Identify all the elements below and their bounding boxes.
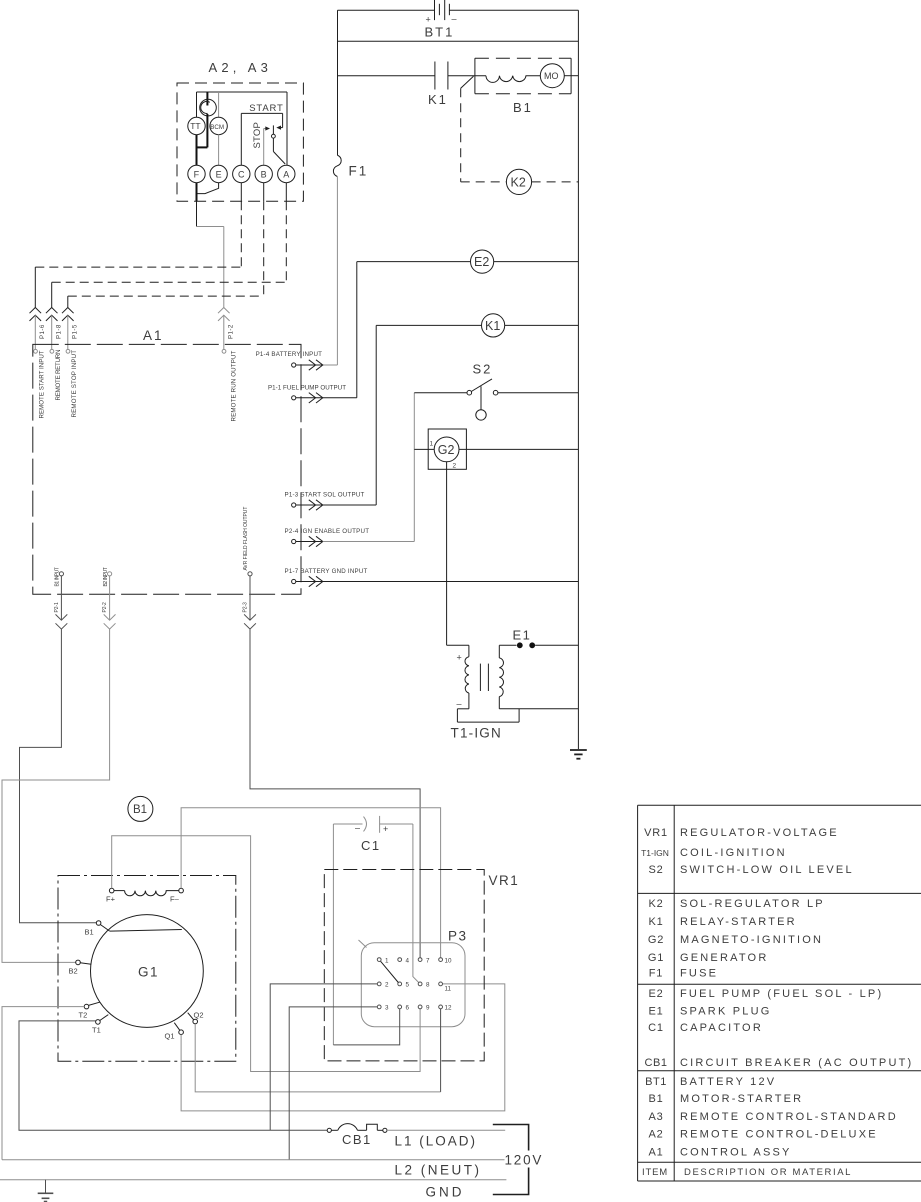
120V bracket: [493, 1125, 543, 1195]
svg-text:CB1: CB1: [645, 1057, 668, 1069]
wire: GND line: [0, 1179, 506, 1181]
connector P1-5: [62, 308, 79, 418]
connector P1-2: [218, 308, 238, 422]
svg-text:B1: B1: [648, 1093, 663, 1105]
svg-text:P1-2: P1-2: [228, 324, 235, 339]
svg-text:MO: MO: [544, 71, 559, 81]
voltage regulator VR1 box: [324, 870, 519, 1061]
pushbutton STOP contact: [252, 122, 270, 165]
wire: P2-1 route to B1 terminal: [20, 629, 97, 923]
wire: S2 to right rail: [498, 392, 579, 394]
svg-text:K1: K1: [428, 92, 448, 107]
table row S2: [648, 864, 853, 876]
svg-text:GND: GND: [426, 1185, 465, 1200]
svg-text:G1: G1: [648, 952, 664, 964]
svg-text:A3: A3: [648, 1111, 663, 1123]
switch arm to A: [272, 125, 286, 164]
svg-text:AVR FIELD FLASH OUTPUT: AVR FIELD FLASH OUTPUT: [243, 507, 249, 571]
table row K2: [648, 898, 824, 910]
pin P1-1 fuel pump output: [268, 384, 357, 403]
svg-text:G1: G1: [138, 965, 159, 980]
balloon label B1: [128, 796, 153, 821]
svg-text:G2: G2: [648, 934, 664, 946]
svg-text:REMOTE RUN OUTPUT: REMOTE RUN OUTPUT: [231, 350, 238, 421]
svg-text:SOL-REGULATOR LP: SOL-REGULATOR LP: [680, 898, 825, 910]
svg-text:2: 2: [385, 982, 389, 989]
svg-text:BATTERY 12V: BATTERY 12V: [680, 1076, 776, 1088]
svg-text:G2: G2: [438, 443, 455, 457]
svg-text:BCM: BCM: [210, 124, 224, 131]
svg-text:6: 6: [406, 1005, 410, 1012]
wire: BCM to E: [218, 135, 220, 166]
svg-text:CAPACITOR: CAPACITOR: [680, 1022, 763, 1034]
wire: T2 route to L2: [2, 1007, 84, 1160]
wire: A dashed route to P1-8: [52, 183, 287, 308]
svg-text:E2: E2: [648, 988, 663, 1000]
svg-text:A: A: [283, 170, 289, 180]
svg-text:F: F: [194, 170, 200, 180]
svg-text:2: 2: [453, 463, 457, 470]
transformer T1-IGN: [451, 645, 520, 740]
svg-text:B1 INPUT: B1 INPUT: [55, 567, 61, 586]
wire: T1 route to L1: [19, 1021, 327, 1130]
terminal TT: [188, 117, 205, 134]
svg-text:REGULATOR-VOLTAGE: REGULATOR-VOLTAGE: [680, 827, 839, 839]
table row A2: [648, 1129, 877, 1141]
svg-text:F1: F1: [349, 164, 369, 179]
wire: P2-3 route to P3 pin7: [250, 629, 420, 958]
svg-text:4: 4: [406, 957, 410, 964]
wire: top battery rail: [338, 9, 579, 11]
svg-text:ITEM: ITEM: [642, 1167, 668, 1178]
svg-text:L1 (LOAD): L1 (LOAD): [395, 1134, 478, 1149]
remote control A2 A3 outer box: [177, 60, 303, 201]
indicator lamp: [197, 92, 217, 147]
pin P1-4 battery input: [256, 351, 323, 370]
svg-text:K1: K1: [648, 916, 663, 928]
svg-text:S2: S2: [648, 864, 663, 876]
pin P2-2 B2 input: [102, 567, 115, 629]
svg-text:B2: B2: [69, 967, 78, 976]
svg-text:A1: A1: [648, 1147, 663, 1159]
terminal BCM: [210, 92, 227, 135]
svg-text:REMOTE CONTROL-DELUXE: REMOTE CONTROL-DELUXE: [680, 1129, 878, 1141]
wire: E2 to right rail: [494, 261, 579, 263]
svg-text:CB1: CB1: [342, 1132, 372, 1147]
svg-text:F–: F–: [170, 895, 180, 904]
connector P1-6: [30, 308, 47, 419]
svg-text:RELAY-STARTER: RELAY-STARTER: [680, 916, 797, 928]
terminal E: [210, 165, 227, 182]
wire: Q1 route to P3 pin11: [181, 984, 505, 1111]
svg-text:P3: P3: [448, 929, 468, 944]
table footer: [642, 1167, 852, 1178]
fuse F1: [333, 155, 368, 178]
svg-text:TT: TT: [190, 121, 200, 131]
terminal T1: [92, 1015, 108, 1035]
table row BT1: [645, 1076, 776, 1088]
svg-text:C: C: [238, 170, 245, 180]
svg-text:9: 9: [426, 1005, 430, 1012]
wire: pin12 drop: [440, 1009, 442, 1092]
svg-text:P1-1 FUEL PUMP OUTPUT: P1-1 FUEL PUMP OUTPUT: [268, 384, 346, 391]
svg-text:P2-2: P2-2: [102, 602, 108, 612]
svg-text:STOP: STOP: [252, 122, 263, 149]
svg-text:CIRCUIT BREAKER (AC OUTPUT): CIRCUIT BREAKER (AC OUTPUT): [680, 1057, 913, 1069]
svg-text:FUSE: FUSE: [680, 968, 718, 980]
table row K1: [648, 916, 796, 928]
terminal T2: [79, 1002, 100, 1019]
switch S2 low oil level: [467, 362, 498, 421]
svg-text:10: 10: [445, 957, 453, 964]
svg-text:P2-3: P2-3: [243, 602, 249, 612]
svg-text:B1: B1: [85, 928, 94, 937]
wire: fuse output down to P1-4: [323, 177, 338, 366]
svg-text:F+: F+: [106, 895, 116, 904]
table row G1: [648, 952, 769, 964]
P3 pins row 1: [377, 957, 452, 964]
table row C1: [648, 1022, 763, 1034]
svg-text:T1: T1: [92, 1026, 101, 1035]
wire: secondary bottom to rail: [499, 708, 578, 710]
svg-text:DESCRIPTION OR MATERIAL: DESCRIPTION OR MATERIAL: [684, 1167, 852, 1178]
svg-text:A2, A3: A2, A3: [209, 60, 273, 75]
svg-text:P1-5: P1-5: [72, 324, 79, 339]
wire: dashed drop to K2: [461, 88, 507, 182]
svg-text:–: –: [355, 823, 360, 833]
svg-text:L2 (NEUT): L2 (NEUT): [395, 1163, 482, 1178]
svg-text:SWITCH-LOW OIL LEVEL: SWITCH-LOW OIL LEVEL: [680, 864, 854, 876]
svg-text:12: 12: [445, 1005, 453, 1012]
svg-text:P1-7 BATTERY GND INPUT: P1-7 BATTERY GND INPUT: [285, 568, 368, 575]
svg-text:P1-8: P1-8: [55, 324, 62, 339]
wire: diagonal tap to K2: [461, 76, 474, 88]
relay coil K1: [482, 314, 505, 337]
wire: Q2 route to P3 pin12: [195, 1024, 440, 1092]
inductor: starter solenoid coil: [486, 76, 540, 83]
svg-text:A1: A1: [143, 328, 164, 343]
wire: C1 left to pin6 junction: [332, 824, 334, 1045]
svg-text:REMOTE STOP INPUT: REMOTE STOP INPUT: [71, 350, 78, 418]
svg-text:E: E: [216, 170, 222, 180]
wire: pin3 to L2: [289, 1007, 377, 1160]
table row E2: [648, 988, 883, 1000]
wire: TT to F thick: [196, 135, 198, 166]
wire: B dashed route to P1-5: [68, 183, 264, 308]
wire: G2 to right rail: [459, 448, 578, 450]
generator G1 box: [58, 876, 236, 1062]
table row VR1: [644, 827, 839, 839]
wire: motor to right rail: [564, 75, 578, 77]
svg-text:1: 1: [430, 441, 434, 448]
wire: K1 contact row: [338, 75, 435, 77]
connector P3: [359, 929, 468, 1027]
table row G2: [648, 934, 823, 946]
table row A1: [648, 1147, 791, 1159]
svg-text:8: 8: [426, 982, 430, 989]
relay contact K1: [428, 62, 448, 108]
generator G1: [90, 915, 203, 1028]
table row B1: [648, 1093, 803, 1105]
svg-text:–: –: [452, 14, 457, 24]
svg-text:S2: S2: [473, 362, 493, 377]
svg-text:P1-3 START SOL OUTPUT: P1-3 START SOL OUTPUT: [285, 491, 365, 498]
svg-text:VR1: VR1: [644, 827, 668, 839]
wire: E jog to F line: [197, 183, 219, 194]
terminal A: [278, 165, 295, 182]
P3 pins row 2: [377, 982, 451, 993]
table row A3: [648, 1111, 897, 1123]
svg-text:E2: E2: [474, 255, 489, 269]
wire: G2 pin2 down to T1: [447, 462, 469, 657]
wire: L2 neut line: [2, 1159, 505, 1161]
parts table frame: [638, 805, 921, 1181]
wire: right rail: [577, 10, 579, 749]
fuel pump E2: [471, 250, 494, 273]
svg-text:REMOTE START INPUT: REMOTE START INPUT: [39, 350, 46, 418]
svg-text:120V: 120V: [505, 1153, 544, 1168]
svg-text:K2: K2: [648, 898, 663, 910]
svg-text:3: 3: [385, 1005, 389, 1012]
svg-text:GENERATOR: GENERATOR: [680, 952, 768, 964]
pin P2-1 B1 input: [54, 567, 67, 629]
pin P2-3 AVR field flash output: [243, 507, 256, 629]
svg-text:START: START: [249, 103, 283, 114]
svg-text:REMOTE RETURN: REMOTE RETURN: [55, 350, 62, 401]
starter motor B1 box: [475, 58, 571, 115]
svg-text:–: –: [457, 699, 462, 709]
magneto G2: [428, 429, 466, 470]
terminal F: [188, 165, 205, 182]
ground (right rail): [570, 750, 587, 759]
svg-text:+: +: [457, 653, 462, 663]
wire: P1-1 up to E2: [357, 262, 471, 398]
terminal B1: [85, 921, 110, 937]
wire: second rail: [338, 40, 579, 42]
wire: P1-3 up to K1 coil: [376, 325, 481, 505]
wire: F- route to P3 pin10: [181, 808, 441, 958]
pin P1-7 battery gnd input: [285, 568, 579, 587]
wire: K1 to B1 box: [448, 75, 486, 77]
pin P2-4 ign enable output: [285, 528, 415, 547]
wire: F output below box: [197, 183, 224, 308]
connector P1-8: [46, 308, 63, 401]
battery BT1: [425, 0, 457, 40]
control assy A1 box: [33, 328, 301, 594]
svg-text:1: 1: [385, 957, 389, 964]
terminal B2: [69, 960, 92, 975]
svg-text:BT1: BT1: [645, 1076, 667, 1088]
svg-text:Q2: Q2: [194, 1010, 204, 1019]
svg-text:P1-6: P1-6: [39, 324, 46, 339]
wire: P3 jumper pin1 to pin5: [381, 961, 399, 982]
wire: E1 to right rail: [535, 644, 578, 646]
svg-text:MAGNETO-IGNITION: MAGNETO-IGNITION: [680, 934, 823, 946]
svg-text:Q1: Q1: [165, 1032, 175, 1041]
terminal C: [233, 165, 250, 182]
field winding F+ F-: [106, 888, 183, 903]
svg-text:MOTOR-STARTER: MOTOR-STARTER: [680, 1093, 803, 1105]
table row E1: [648, 1006, 771, 1018]
svg-text:B1: B1: [133, 804, 147, 816]
svg-text:REMOTE CONTROL-STANDARD: REMOTE CONTROL-STANDARD: [680, 1111, 898, 1123]
P3 pins row 3: [377, 1005, 452, 1012]
svg-text:C1: C1: [648, 1022, 664, 1034]
pushbutton START path: [241, 103, 283, 165]
svg-text:K2: K2: [511, 175, 526, 189]
svg-text:K1: K1: [485, 319, 500, 333]
wire: P2-2 route to B2 terminal: [2, 629, 110, 962]
circuit breaker CB1: [327, 1124, 387, 1147]
terminal Q1: [165, 1023, 184, 1041]
wire: F+ route to P3 pin9: [112, 836, 420, 1072]
wire: C1 right to pin8: [413, 824, 419, 983]
wire: K1 coil to right rail: [505, 324, 579, 326]
svg-text:E1: E1: [513, 628, 532, 643]
svg-text:P1-4 BATTERY INPUT: P1-4 BATTERY INPUT: [256, 351, 323, 358]
wire: left rail down to fuse: [337, 10, 339, 155]
solenoid K2: [506, 169, 531, 194]
svg-text:E1: E1: [648, 1006, 663, 1018]
terminal Q2: [188, 1010, 204, 1024]
terminal B: [255, 165, 272, 182]
svg-text:CONTROL ASSY: CONTROL ASSY: [680, 1147, 792, 1159]
svg-text:B1: B1: [513, 100, 533, 115]
pin P1-3 start sol output: [285, 491, 377, 510]
wire: pin6 to C1: [333, 1009, 399, 1045]
ground (bottom left): [38, 1180, 54, 1202]
remote control inner box: [197, 92, 288, 165]
svg-text:B2 INPUT: B2 INPUT: [103, 567, 109, 586]
wire: pin2 to L1: [270, 984, 377, 1130]
table row T1-IGN: [641, 847, 787, 859]
wire: C dashed route to P1-6: [35, 183, 241, 308]
svg-text:F1: F1: [649, 968, 663, 980]
svg-text:T1-IGN: T1-IGN: [641, 848, 669, 858]
svg-text:C1: C1: [361, 838, 381, 853]
wire: L1 load line: [387, 1129, 505, 1131]
svg-text:B: B: [261, 170, 267, 180]
svg-text:SPARK PLUG: SPARK PLUG: [680, 1006, 772, 1018]
svg-text:COIL-IGNITION: COIL-IGNITION: [680, 847, 787, 859]
motor MO: [540, 64, 564, 88]
spark plug E1: [499, 628, 535, 649]
svg-text:BT1: BT1: [425, 25, 455, 40]
svg-text:11: 11: [445, 986, 452, 993]
capacitor C1: [333, 816, 413, 853]
svg-text:P2-4 IGN ENABLE OUTPUT: P2-4 IGN ENABLE OUTPUT: [285, 528, 370, 535]
svg-text:+: +: [383, 824, 388, 834]
wire: G2 pin1 left: [414, 448, 434, 450]
svg-text:T1-IGN: T1-IGN: [451, 726, 502, 741]
svg-text:7: 7: [426, 957, 430, 964]
svg-text:FUEL PUMP (FUEL SOL - LP): FUEL PUMP (FUEL SOL - LP): [680, 988, 883, 1000]
svg-text:T2: T2: [79, 1011, 88, 1020]
svg-text:VR1: VR1: [489, 873, 520, 888]
svg-text:P2-1: P2-1: [54, 602, 60, 612]
svg-text:A2: A2: [648, 1129, 663, 1141]
svg-text:+: +: [426, 15, 431, 25]
table row F1: [649, 968, 718, 980]
wire: K2 to right rail dashed: [532, 181, 579, 183]
svg-text:5: 5: [406, 982, 410, 989]
table row CB1: [645, 1057, 914, 1069]
wire: P2-4 up to S2: [414, 393, 467, 542]
